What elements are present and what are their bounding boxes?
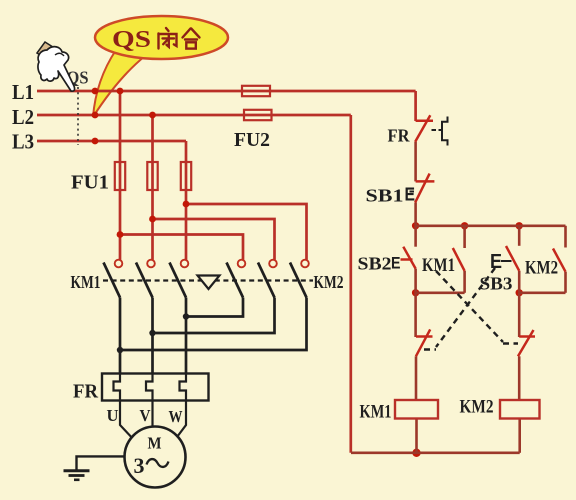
svg-text:KM1: KM1	[71, 272, 101, 292]
svg-text:KM1: KM1	[360, 402, 392, 423]
svg-text:3: 3	[134, 453, 145, 478]
svg-text:KM2: KM2	[460, 397, 494, 418]
svg-text:KM2: KM2	[314, 272, 344, 292]
svg-text:E: E	[391, 254, 401, 273]
svg-text:E: E	[490, 251, 502, 273]
svg-text:M: M	[148, 434, 162, 453]
svg-text:FU1: FU1	[71, 172, 109, 194]
svg-text:L2: L2	[12, 105, 34, 129]
svg-text:FU2: FU2	[234, 129, 270, 151]
svg-text:L3: L3	[12, 130, 34, 154]
svg-text:KM2: KM2	[525, 258, 558, 279]
svg-text:FR: FR	[388, 126, 411, 146]
svg-text:E: E	[405, 185, 416, 205]
svg-text:L1: L1	[12, 80, 34, 104]
svg-text:SB3: SB3	[480, 274, 513, 294]
svg-text:W: W	[169, 407, 183, 426]
svg-text:V: V	[140, 406, 152, 425]
svg-text:QS: QS	[112, 27, 151, 53]
svg-text:SB1: SB1	[366, 186, 404, 206]
svg-text:FR: FR	[73, 381, 99, 403]
svg-text:SB2: SB2	[358, 254, 392, 274]
svg-text:KM1: KM1	[422, 255, 455, 276]
svg-text:U: U	[107, 406, 119, 425]
